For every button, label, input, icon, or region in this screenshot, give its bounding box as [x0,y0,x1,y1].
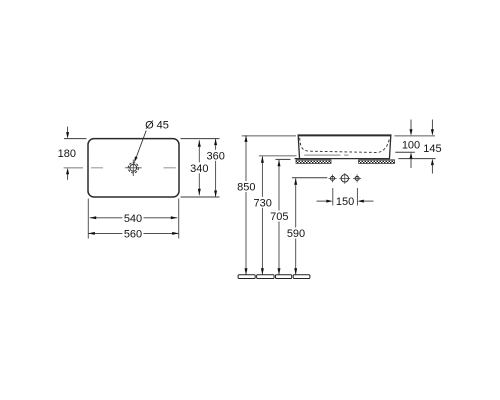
svg-text:100: 100 [402,139,420,151]
svg-text:560: 560 [124,228,142,240]
svg-text:Ø 45: Ø 45 [145,119,169,131]
svg-text:360: 360 [207,150,225,162]
svg-text:850: 850 [237,182,255,194]
svg-text:340: 340 [190,163,208,175]
svg-text:540: 540 [124,213,142,225]
svg-text:705: 705 [270,211,288,223]
svg-text:180: 180 [58,148,76,160]
svg-text:145: 145 [423,143,441,155]
svg-text:730: 730 [254,197,272,209]
svg-text:590: 590 [287,228,305,240]
svg-text:150: 150 [336,196,354,208]
